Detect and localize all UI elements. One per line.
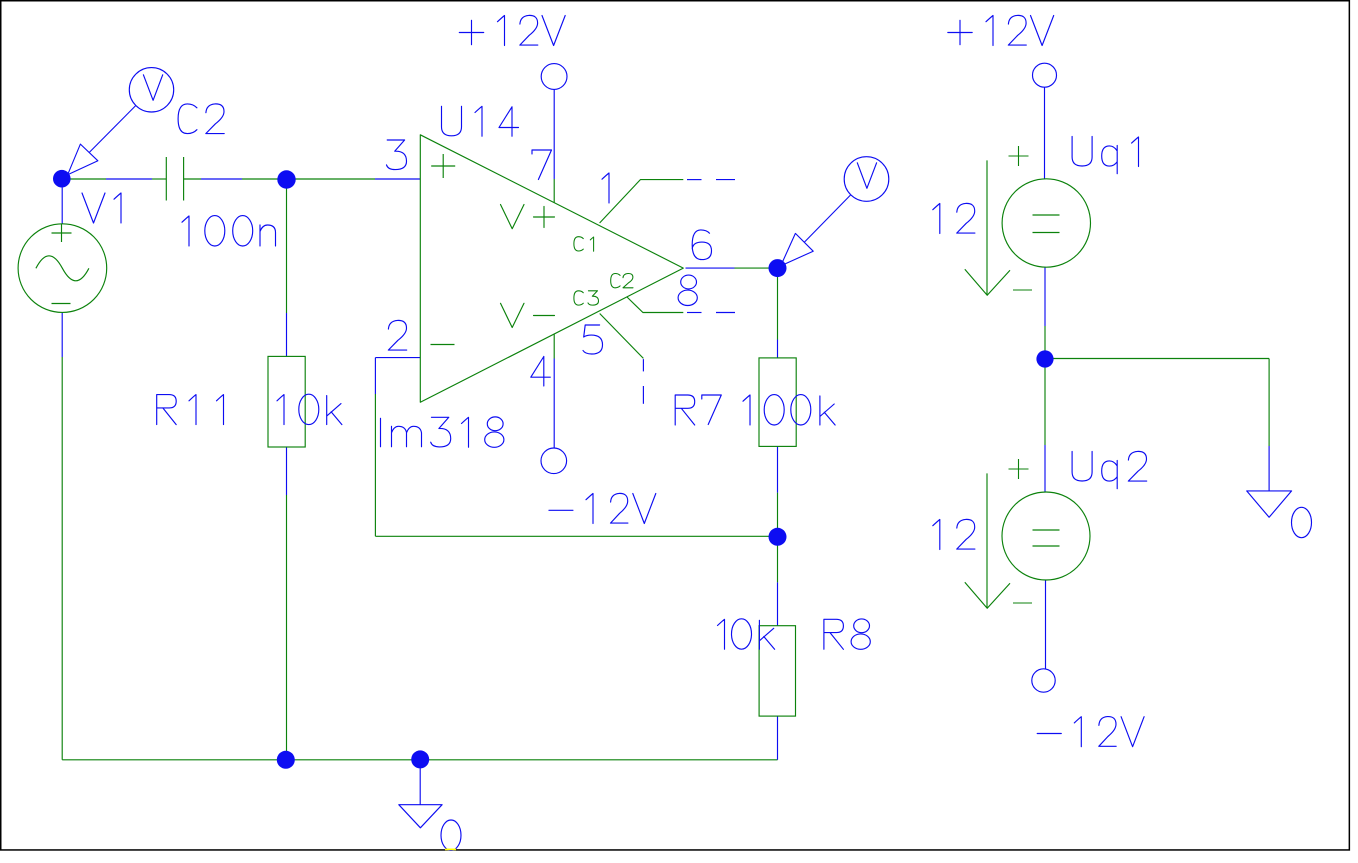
wire node A to C2 bbox=[62, 178, 106, 180]
wire R7 top lead bbox=[777, 340, 779, 358]
pin 4 stub bbox=[553, 334, 555, 358]
node E dot (supply mid) bbox=[1036, 350, 1053, 367]
yellow border tick bbox=[445, 848, 456, 850]
pin 6 number bbox=[692, 230, 711, 260]
+12V terminal circle bbox=[541, 64, 567, 90]
wire pin 4 supply lead bbox=[553, 359, 555, 448]
pin 7 stub bbox=[553, 179, 555, 203]
ground 0 left bbox=[399, 805, 442, 828]
label 0 right bbox=[1292, 507, 1312, 537]
op-amp V- label bbox=[501, 303, 555, 327]
label -12V opamp bbox=[549, 493, 656, 523]
probe 1 V glyph bbox=[143, 75, 162, 101]
wire feedback horizontal bbox=[375, 535, 777, 537]
resistor R8 bbox=[759, 626, 795, 716]
pin 8 number bbox=[678, 275, 697, 305]
node dot ground rail R11 bbox=[277, 751, 295, 769]
wire R8 bottom up bbox=[777, 716, 779, 760]
pin 1 stub bbox=[600, 180, 684, 223]
-12V terminal circle bbox=[541, 448, 567, 474]
pin 8 dash marks bbox=[687, 312, 735, 314]
wire Uq1 bottom bbox=[1044, 267, 1046, 326]
wire Uq2 top bbox=[1044, 445, 1046, 492]
pin 1 number bbox=[602, 173, 609, 203]
source V1 circle bbox=[18, 224, 107, 313]
probe 2 V glyph bbox=[857, 163, 876, 189]
pin 5 stub bbox=[600, 314, 644, 359]
wire node C down bbox=[777, 268, 779, 339]
label 0 left bbox=[441, 820, 461, 850]
pin 5 number bbox=[583, 325, 603, 354]
Uq1 plus mark bbox=[1009, 146, 1029, 166]
wire node B down bbox=[286, 179, 288, 313]
pin 2 number bbox=[388, 320, 406, 350]
-12V right terminal circle bbox=[1032, 669, 1055, 692]
op-amp + input mark bbox=[431, 154, 455, 178]
wire ground 0 lead bbox=[419, 760, 421, 805]
Uq2 minus mark bbox=[1013, 602, 1032, 604]
wire pin 2 corner down bbox=[374, 358, 376, 394]
label C2 comp bbox=[611, 273, 633, 287]
pin 4 number bbox=[531, 357, 551, 387]
wire Uq1 to node E bbox=[1044, 326, 1046, 359]
wire feedback vertical bbox=[374, 394, 376, 536]
wire node A to V1 bbox=[61, 188, 63, 225]
label R7 bbox=[675, 395, 721, 425]
value 100n bbox=[182, 216, 276, 246]
+12V right terminal circle bbox=[1033, 63, 1057, 87]
value 12 Uq2 bbox=[933, 519, 975, 549]
Uq1 minus mark bbox=[1013, 289, 1032, 291]
label lm318 bbox=[381, 417, 504, 447]
pin 8 stub bbox=[627, 297, 683, 313]
wire V1 to ground rail bbox=[61, 357, 63, 760]
resistor R7 bbox=[759, 358, 796, 447]
pin 3 number bbox=[387, 140, 407, 170]
label Uq1 bbox=[1072, 137, 1138, 174]
resistor R11 bbox=[268, 356, 305, 447]
wire R7 bottom lead bbox=[777, 446, 779, 492]
wire R11 bottom to ground rail bbox=[286, 495, 288, 760]
value 100k R7 bbox=[743, 395, 835, 425]
node B dot bbox=[277, 170, 295, 188]
Uq2 plus mark bbox=[1009, 459, 1029, 479]
wire R11 top lead bbox=[286, 313, 288, 356]
wire output to node C bbox=[735, 267, 778, 269]
ground 0 right bbox=[1247, 491, 1292, 517]
wire R7 to node D bbox=[777, 493, 779, 537]
V1 minus sign bbox=[52, 303, 71, 305]
wire node D to R8 bbox=[777, 536, 779, 582]
Uq1 battery lines bbox=[1033, 215, 1060, 233]
label R11 bbox=[157, 395, 224, 425]
Uq2 battery lines bbox=[1033, 530, 1060, 546]
wire pin 3 lead bbox=[375, 178, 420, 180]
probe 1 arrow bbox=[68, 144, 98, 175]
label C1 comp bbox=[574, 237, 594, 252]
source Uq2 circle bbox=[1002, 492, 1090, 580]
wire node E to right ground bbox=[1045, 358, 1269, 360]
value 12 Uq1 bbox=[933, 203, 975, 233]
op-amp - input mark bbox=[431, 344, 455, 346]
wire right ground lead bbox=[1268, 446, 1270, 491]
wire V1 bottom lead bbox=[61, 312, 63, 357]
wire right ground down bbox=[1268, 359, 1270, 447]
wire pin 2 lead bbox=[375, 357, 420, 359]
pin 5 dash marks bbox=[642, 359, 644, 404]
probe 1 circle bbox=[129, 68, 173, 112]
wire node E to Uq2 bbox=[1044, 359, 1046, 445]
pin 7 number bbox=[532, 150, 552, 180]
label R8 bbox=[824, 619, 870, 649]
value 10k R11 bbox=[277, 394, 342, 424]
wire R8 top lead bbox=[777, 582, 779, 625]
wire C2 input blue segment bbox=[106, 178, 152, 180]
wire C2 to node B to pin3 bbox=[242, 178, 375, 180]
node C dot (output) bbox=[769, 259, 787, 277]
capacitor C2 bbox=[166, 157, 183, 201]
label C2 bbox=[178, 104, 224, 134]
wire Uq2 to -12V terminal bbox=[1045, 580, 1047, 669]
wire C2 output blue segment bbox=[201, 178, 242, 180]
Uq2 arrow bbox=[965, 473, 1010, 608]
value 10k R8 bbox=[718, 619, 775, 649]
node A dot bbox=[53, 170, 71, 188]
Uq1 arrow bbox=[965, 160, 1010, 295]
op-amp U14 triangle bbox=[420, 135, 683, 403]
source Uq1 circle bbox=[1002, 179, 1090, 267]
probe 2 stem bbox=[804, 195, 851, 243]
op-amp V+ label bbox=[501, 205, 555, 229]
probe 2 circle bbox=[844, 157, 889, 202]
probe 1 stem bbox=[89, 106, 136, 153]
label U14 bbox=[442, 106, 519, 136]
wire bottom ground rail bbox=[62, 759, 777, 761]
label +12V opamp bbox=[459, 15, 565, 45]
probe 2 arrow bbox=[781, 233, 814, 266]
wire R11 bottom lead bbox=[286, 447, 288, 495]
label Uq2 bbox=[1072, 451, 1147, 488]
label +12V right bbox=[948, 15, 1054, 45]
wire pin 6 lead bbox=[686, 267, 735, 269]
wire +12V terminal to Uq1 bbox=[1044, 87, 1046, 179]
wire C2 left pin bbox=[152, 178, 166, 180]
label C3 comp bbox=[574, 291, 599, 305]
V1 sine wave bbox=[36, 256, 89, 281]
label V1 bbox=[82, 193, 121, 223]
label -12V right bbox=[1037, 717, 1144, 747]
pin 1 dash marks bbox=[687, 179, 735, 181]
V1 plus sign bbox=[52, 224, 72, 242]
wire pin 7 supply lead bbox=[553, 90, 555, 180]
wire C2 right pin bbox=[184, 178, 201, 180]
node D dot (feedback) bbox=[769, 528, 787, 546]
node dot ground rail 0 bbox=[411, 750, 429, 768]
